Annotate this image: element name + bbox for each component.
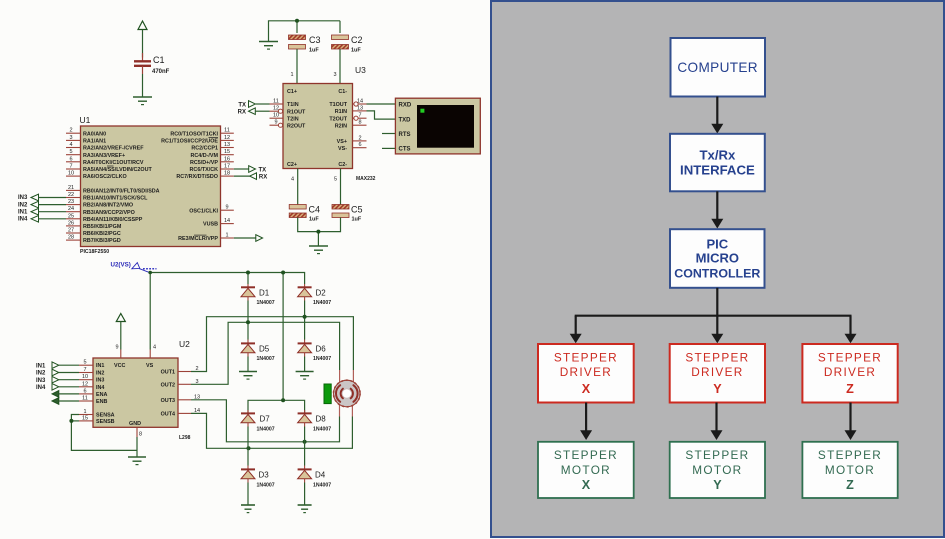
wire OUT1 to motor (bus y=316.7)	[191, 317, 353, 372]
svg-text:8: 8	[139, 432, 142, 438]
svg-text:IN1: IN1	[96, 363, 104, 369]
svg-text:U3: U3	[355, 65, 366, 75]
diode D6	[298, 340, 332, 362]
node ENB terminal	[52, 398, 79, 405]
wire colB D8-D4	[304, 427, 306, 466]
svg-text:IN2: IN2	[18, 202, 28, 208]
svg-text:RB3/AN9/CCP2/VPO: RB3/AN9/CCP2/VPO	[83, 210, 135, 216]
svg-text:4: 4	[69, 142, 72, 148]
svg-text:C1: C1	[153, 55, 165, 65]
svg-text:DRIVER: DRIVER	[560, 365, 612, 379]
node IN3 terminal (U2)	[36, 376, 79, 384]
svg-text:Tx/Rx: Tx/Rx	[699, 147, 736, 162]
U2 left pin numbers	[82, 360, 88, 422]
arrow to driver X	[570, 316, 582, 344]
block Tx/Rx INTERFACE	[670, 134, 765, 192]
svg-text:STEPPER: STEPPER	[818, 350, 882, 364]
svg-text:MICRO: MICRO	[696, 251, 739, 266]
svg-text:RB1/AN10/INT1/SCK/SCL: RB1/AN10/INT1/SCK/SCL	[83, 196, 148, 202]
diode D5	[241, 340, 275, 362]
wire D3 to ground	[247, 483, 249, 506]
svg-text:C5: C5	[351, 205, 363, 215]
svg-text:R1OUT: R1OUT	[287, 109, 306, 115]
svg-text:L298: L298	[179, 435, 191, 441]
U3 right pin numbers	[357, 99, 363, 149]
svg-text:18: 18	[224, 171, 230, 177]
svg-text:TX: TX	[259, 168, 267, 174]
wire SENSA SENSB loop	[71, 415, 137, 451]
block PIC MICRO CONTROLLER	[670, 229, 765, 288]
svg-text:3: 3	[69, 135, 72, 141]
svg-text:STEPPER: STEPPER	[818, 448, 882, 462]
svg-text:IN3: IN3	[36, 378, 46, 384]
svg-text:RB0/AN12/INT0/FLT0/SDI/SDA: RB0/AN12/INT0/FLT0/SDI/SDA	[83, 189, 160, 195]
node junction	[69, 419, 73, 423]
svg-text:DRIVER: DRIVER	[824, 365, 876, 379]
motor position indicator	[324, 384, 331, 404]
svg-text:COMPUTER: COMPUTER	[677, 60, 758, 75]
wire IN4 to pin25	[39, 218, 67, 220]
svg-text:24: 24	[68, 206, 74, 212]
svg-text:10: 10	[273, 113, 279, 119]
pin number 9	[115, 345, 118, 351]
svg-text:OUT2: OUT2	[161, 382, 175, 388]
node IN1 terminal	[18, 208, 39, 215]
svg-text:C4: C4	[309, 205, 321, 215]
svg-text:U1: U1	[80, 115, 91, 125]
pin number 5	[334, 177, 337, 183]
diode D2	[298, 284, 332, 306]
arrow driver Y to motor Y	[711, 403, 723, 441]
wire OUT2 to motor (bus y=322.3)	[191, 322, 340, 384]
arrow interface to pic	[711, 191, 723, 228]
svg-text:ENB: ENB	[96, 399, 107, 405]
svg-text:VCC: VCC	[114, 363, 125, 369]
wire D5 to ground	[247, 357, 249, 372]
svg-text:TXD: TXD	[399, 117, 412, 123]
svg-text:7: 7	[358, 113, 361, 119]
svg-text:D6: D6	[316, 345, 327, 354]
svg-text:D1: D1	[259, 289, 270, 298]
microcontroller U1 PIC18F2550	[80, 115, 221, 255]
U3 right pin stubs	[353, 104, 367, 148]
svg-text:28: 28	[68, 235, 74, 241]
block STEPPER DRIVER X	[538, 344, 634, 403]
node junction	[247, 446, 251, 450]
svg-text:27: 27	[68, 228, 74, 234]
svg-text:IN4: IN4	[36, 385, 46, 391]
U1 left pin stubs block B pins 21-28	[66, 190, 81, 240]
svg-text:C1+: C1+	[287, 89, 297, 95]
svg-text:IN2: IN2	[96, 371, 104, 377]
capacitor C2	[332, 35, 363, 54]
node IN2 terminal	[18, 201, 39, 208]
diode D7	[241, 410, 275, 432]
svg-text:22: 22	[68, 192, 74, 198]
svg-text:RA0/AN0: RA0/AN0	[83, 131, 106, 137]
node TX terminal (U1 pin17)	[234, 166, 266, 174]
svg-text:RE3/MCLR/VPP: RE3/MCLR/VPP	[178, 236, 218, 242]
node junction	[295, 19, 299, 23]
svg-text:9: 9	[115, 345, 118, 351]
svg-text:1: 1	[290, 72, 293, 78]
U1 left pin numbers block B	[68, 185, 74, 241]
svg-text:RC0/T1OSO/T1CKI: RC0/T1OSO/T1CKI	[170, 131, 218, 137]
block STEPPER MOTOR Y	[670, 442, 765, 498]
svg-text:14: 14	[224, 218, 230, 224]
wire colA D1-D5	[247, 301, 249, 340]
wire IN3 to pin22	[39, 197, 67, 199]
svg-text:1N4007: 1N4007	[257, 426, 275, 432]
svg-text:12: 12	[82, 381, 88, 387]
pin number 4	[291, 177, 294, 183]
wire colB D2-D6	[304, 301, 306, 340]
wire C3 to U3 pin1	[296, 49, 298, 84]
wire top rail (MAX232 caps)	[269, 21, 341, 42]
svg-text:3: 3	[333, 72, 336, 78]
svg-text:IN1: IN1	[36, 363, 46, 369]
svg-text:15: 15	[82, 415, 88, 421]
svg-text:470nF: 470nF	[152, 69, 170, 75]
wire U3 pin5 to C5	[340, 169, 342, 205]
wire VCC	[120, 322, 122, 359]
wire U3 pin13 to TXD	[367, 111, 396, 119]
diode D4	[298, 466, 332, 489]
svg-text:OSC1/CLKI: OSC1/CLKI	[189, 208, 218, 214]
svg-text:21: 21	[68, 185, 74, 191]
block STEPPER MOTOR X	[538, 442, 634, 498]
svg-text:C1-: C1-	[338, 89, 347, 95]
svg-text:D8: D8	[316, 414, 327, 423]
diode D8	[298, 410, 332, 432]
svg-text:PIC: PIC	[706, 236, 728, 251]
svg-text:5: 5	[69, 149, 72, 155]
svg-text:11: 11	[224, 128, 230, 134]
svg-text:R2IN: R2IN	[335, 123, 347, 129]
wire D7 D8 top bus	[248, 400, 305, 413]
node RX terminal (U3 pin12)	[238, 108, 270, 116]
wire OUT3 to motor (bus y=441.8)	[191, 400, 340, 442]
svg-text:T2IN: T2IN	[287, 116, 299, 122]
U1 left pin stubs block A pins 2-10	[66, 133, 81, 176]
svg-text:RC5/D+/VP: RC5/D+/VP	[190, 160, 218, 166]
svg-text:D5: D5	[259, 345, 270, 354]
svg-text:OUT1: OUT1	[161, 370, 175, 376]
U1 right pin names RC	[161, 131, 218, 242]
node junction	[303, 440, 307, 444]
svg-text:RA6/OSC2/CLKO: RA6/OSC2/CLKO	[83, 174, 127, 180]
svg-text:T1IN: T1IN	[287, 102, 299, 108]
svg-text:STEPPER: STEPPER	[685, 448, 749, 462]
svg-text:1N4007: 1N4007	[313, 426, 331, 432]
svg-text:1N4007: 1N4007	[257, 356, 275, 362]
svg-text:1uF: 1uF	[309, 217, 319, 223]
svg-text:R1IN: R1IN	[335, 109, 347, 115]
svg-text:MOTOR: MOTOR	[825, 463, 875, 477]
svg-text:DRIVER: DRIVER	[691, 365, 743, 379]
U2 inside labels	[96, 363, 175, 427]
ground (D3)	[241, 505, 255, 513]
svg-text:15: 15	[224, 149, 230, 155]
wire RTS stub	[382, 133, 395, 135]
block COMPUTER	[671, 38, 766, 97]
svg-text:1N4007: 1N4007	[257, 300, 275, 306]
wire	[142, 30, 144, 58]
svg-text:D3: D3	[259, 470, 270, 479]
svg-text:SENSB: SENSB	[96, 419, 115, 425]
svg-text:IN1: IN1	[18, 209, 28, 215]
node junction	[303, 315, 307, 319]
svg-text:11: 11	[273, 99, 279, 105]
svg-text:T1OUT: T1OUT	[329, 102, 347, 108]
U3 right pin circles	[354, 102, 358, 120]
svg-text:CONTROLLER: CONTROLLER	[674, 266, 760, 280]
svg-text:13: 13	[224, 142, 230, 148]
motor M1 stepper	[334, 370, 361, 417]
svg-text:CTS: CTS	[399, 147, 411, 153]
svg-text:IN4: IN4	[96, 385, 104, 391]
svg-text:RC2/CCP1: RC2/CCP1	[191, 146, 218, 152]
wire	[142, 74, 144, 97]
svg-text:2: 2	[69, 128, 72, 134]
U1 left pin numbers block A	[68, 128, 74, 177]
svg-text:C2: C2	[351, 35, 363, 45]
U3 inside labels	[287, 89, 348, 168]
svg-text:RB6/KBI2/PGC: RB6/KBI2/PGC	[83, 231, 121, 237]
arrow driver X to motor X	[580, 403, 592, 441]
arrow to driver Z	[845, 316, 857, 344]
ic U3 MAX232	[283, 65, 376, 182]
svg-text:6: 6	[83, 388, 86, 394]
block STEPPER MOTOR Z	[802, 442, 897, 498]
svg-text:11: 11	[82, 396, 88, 402]
wire U3 pin14 to RXD	[367, 103, 396, 105]
svg-text:X: X	[582, 382, 591, 396]
node IN4 terminal	[18, 216, 39, 223]
ground (U2)	[128, 457, 146, 465]
svg-text:RX: RX	[259, 175, 267, 181]
U2 right pin numbers	[194, 366, 200, 414]
svg-text:GND: GND	[129, 421, 141, 427]
arrow driver Z to motor Z	[845, 403, 857, 441]
U1 right pin numbers	[224, 128, 230, 239]
svg-text:INTERFACE: INTERFACE	[680, 163, 755, 178]
svg-text:RTS: RTS	[399, 132, 411, 138]
svg-text:RC6/TX/CK: RC6/TX/CK	[190, 167, 219, 173]
wire VS stub	[149, 350, 151, 359]
svg-text:IN3: IN3	[96, 378, 104, 384]
svg-text:6: 6	[358, 142, 361, 148]
svg-text:14: 14	[357, 99, 363, 105]
pin number 1	[290, 72, 293, 78]
svg-text:STEPPER: STEPPER	[554, 448, 618, 462]
node U2(VS) label	[111, 262, 157, 275]
svg-text:TX: TX	[238, 103, 246, 109]
node IN4 terminal (U2)	[36, 384, 79, 392]
node ENA terminal	[52, 391, 79, 398]
svg-text:RA5/AN4/SS/LVDIN/C2OUT: RA5/AN4/SS/LVDIN/C2OUT	[83, 167, 152, 173]
ground (D4)	[298, 505, 312, 513]
svg-text:RB7/KBI3/PGD: RB7/KBI3/PGD	[83, 238, 121, 244]
svg-text:8: 8	[358, 120, 361, 126]
arrow to driver Y	[711, 316, 723, 344]
svg-text:1N4007: 1N4007	[313, 356, 331, 362]
power symbol (C1 branch)	[138, 21, 147, 30]
svg-text:PIC18F2550: PIC18F2550	[80, 249, 109, 255]
svg-text:VS: VS	[146, 363, 154, 369]
svg-text:9: 9	[225, 205, 228, 211]
block STEPPER DRIVER Y	[670, 344, 765, 403]
diode D3	[241, 466, 275, 489]
node junction	[316, 230, 320, 234]
svg-text:MOTOR: MOTOR	[561, 463, 611, 477]
svg-text:IN2: IN2	[36, 371, 46, 377]
ground (D6)	[296, 372, 314, 380]
wire IN1 to pin24	[39, 211, 67, 213]
svg-text:10: 10	[68, 171, 74, 177]
node IN1 terminal (U2)	[36, 362, 79, 370]
svg-text:26: 26	[68, 220, 74, 226]
svg-text:RA3/AN3/VREF+: RA3/AN3/VREF+	[83, 153, 125, 159]
capacitor C4	[289, 205, 320, 223]
wire IN2 to pin23	[39, 204, 67, 206]
U3 left pin stubs	[270, 104, 284, 125]
virtual terminal	[395, 98, 480, 154]
node terminal arrow (U1 pin1 MCLR)	[234, 235, 263, 242]
svg-text:RC4/D-/VM: RC4/D-/VM	[190, 153, 218, 159]
svg-text:C2+: C2+	[287, 162, 297, 168]
svg-text:13: 13	[357, 105, 363, 111]
svg-text:MAX232: MAX232	[356, 176, 376, 182]
node junction	[281, 398, 285, 402]
svg-text:4: 4	[291, 177, 294, 183]
ground (D5)	[239, 372, 257, 380]
wire C2 to U3 pin3	[339, 49, 341, 84]
svg-text:MOTOR: MOTOR	[692, 463, 742, 477]
ground (C1)	[133, 97, 152, 105]
svg-text:VS+: VS+	[337, 139, 347, 145]
svg-text:VUSB: VUSB	[203, 222, 218, 228]
svg-text:1uF: 1uF	[309, 48, 319, 54]
svg-text:C2-: C2-	[338, 162, 347, 168]
svg-text:R2OUT: R2OUT	[287, 123, 306, 129]
svg-text:16: 16	[224, 156, 230, 162]
U1 right pin stubs	[221, 133, 234, 238]
svg-text:Y: Y	[713, 382, 722, 396]
node IN3 terminal	[18, 194, 39, 201]
U3 left pin numbers	[273, 99, 279, 126]
svg-text:RB4/AN11/KBI0/CSSPP: RB4/AN11/KBI0/CSSPP	[83, 217, 143, 223]
capacitor C3	[289, 35, 321, 54]
wire D4 to ground	[304, 483, 306, 506]
wire U3 pin4 to C4	[297, 169, 299, 205]
U1 left pin names RB	[83, 189, 160, 245]
svg-text:12: 12	[224, 135, 230, 141]
svg-text:U2(VS): U2(VS)	[111, 262, 131, 269]
svg-text:9: 9	[274, 120, 277, 126]
svg-text:5: 5	[83, 360, 86, 366]
svg-text:1uF: 1uF	[352, 217, 362, 223]
svg-text:IN3: IN3	[18, 195, 28, 201]
svg-text:6: 6	[69, 156, 72, 162]
svg-text:D4: D4	[315, 470, 326, 479]
svg-text:SENSA: SENSA	[96, 413, 115, 419]
svg-text:7: 7	[69, 164, 72, 170]
svg-text:5: 5	[334, 177, 337, 183]
power symbol (U2 VCC)	[116, 314, 125, 322]
svg-text:1N4007: 1N4007	[257, 482, 275, 488]
svg-text:RC1/T1OSI/CCP2/UOE: RC1/T1OSI/CCP2/UOE	[161, 139, 218, 145]
svg-text:OUT4: OUT4	[161, 411, 175, 417]
svg-text:2: 2	[358, 135, 361, 141]
svg-text:RX: RX	[238, 110, 246, 116]
svg-text:STEPPER: STEPPER	[685, 350, 749, 364]
wire OUT4 to motor (bus y=448.3)	[191, 413, 352, 448]
U1 active-low overbars	[107, 137, 218, 235]
block STEPPER DRIVER Z	[802, 344, 897, 403]
svg-text:C3: C3	[309, 35, 321, 45]
svg-text:17: 17	[224, 164, 230, 170]
node TX terminal (U3 pin11)	[238, 101, 269, 109]
svg-text:23: 23	[68, 199, 74, 205]
U1 left pin names RA	[83, 131, 152, 180]
svg-text:X: X	[582, 478, 591, 492]
node junction	[246, 320, 250, 324]
svg-text:RXD: RXD	[399, 102, 412, 108]
svg-text:RB5/KBI1/PGM: RB5/KBI1/PGM	[83, 224, 122, 230]
wire U2(VS) top rail to diodes	[150, 273, 304, 401]
node RX terminal (U1 pin18)	[234, 173, 267, 181]
panel background	[491, 1, 944, 537]
capacitor C5	[332, 205, 363, 223]
svg-text:Z: Z	[846, 382, 854, 396]
svg-text:1N4007: 1N4007	[313, 482, 331, 488]
svg-text:10: 10	[82, 374, 88, 380]
svg-text:Y: Y	[713, 478, 722, 492]
ground (cap rail)	[259, 42, 278, 50]
U2 left pin stubs	[79, 365, 93, 421]
wire colA D7-D3	[247, 427, 249, 466]
svg-text:IN4: IN4	[18, 217, 28, 223]
svg-text:1N4007: 1N4007	[313, 300, 331, 306]
wire U2 GND pin8	[136, 427, 138, 457]
svg-text:4: 4	[153, 345, 156, 351]
svg-text:U2: U2	[179, 339, 190, 349]
wire CTS stub	[382, 147, 395, 149]
pin number 4	[153, 345, 156, 351]
svg-text:1: 1	[83, 409, 86, 415]
distribution line	[575, 288, 852, 317]
arrow computer to interface	[711, 97, 723, 134]
svg-text:1: 1	[225, 233, 228, 239]
svg-text:D2: D2	[316, 289, 327, 298]
node junction	[246, 271, 250, 275]
svg-text:D7: D7	[260, 414, 271, 423]
ground (C4 C5)	[309, 246, 328, 254]
capacitor C1	[134, 53, 170, 75]
svg-text:12: 12	[273, 106, 279, 112]
diode D1	[241, 284, 275, 306]
svg-text:ENA: ENA	[96, 392, 107, 398]
svg-text:RA4/T0CKI/C1OUT/RCV: RA4/T0CKI/C1OUT/RCV	[83, 160, 144, 166]
svg-text:1uF: 1uF	[351, 48, 361, 54]
wire C4 C5 bottom rail	[298, 218, 341, 247]
svg-text:Z: Z	[846, 478, 854, 492]
svg-text:T2OUT: T2OUT	[329, 116, 347, 122]
U3 left pin circles	[278, 109, 282, 127]
svg-text:OUT3: OUT3	[161, 398, 175, 404]
node IN2 terminal (U2)	[36, 369, 79, 377]
